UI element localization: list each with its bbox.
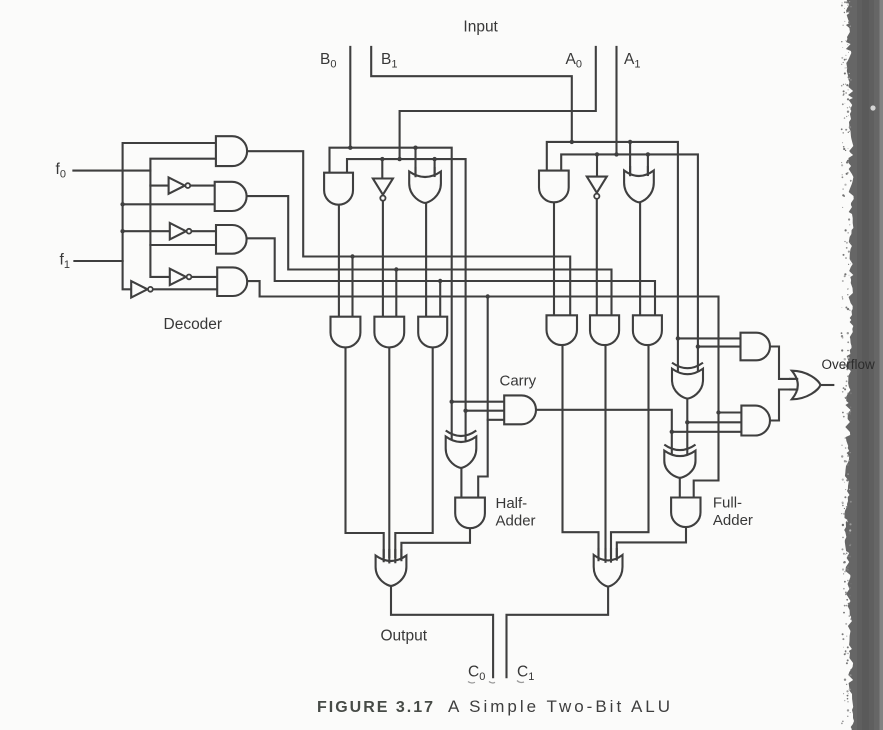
- wire OR0 input stub 3: [394, 550, 396, 562]
- XOR gate half-adder: [446, 437, 477, 468]
- node A-OR2 tap: [646, 152, 650, 156]
- node h1 branch: [350, 254, 354, 258]
- node B-OR2 tap: [432, 157, 436, 161]
- wire AND-R1 input2: [698, 346, 741, 348]
- node A1 on bus2: [614, 152, 618, 156]
- node h2 branch: [394, 267, 398, 271]
- scan gutter edge texture: [841, 1, 852, 724]
- wire B NOT out: [382, 201, 384, 317]
- OR gate overflow: [792, 371, 821, 400]
- wire carry AND input3: [488, 419, 505, 421]
- wire AND-R2 out to overflow OR: [770, 390, 794, 421]
- stray print mark 2: [489, 682, 495, 683]
- node f1-N3: [120, 229, 124, 233]
- wire XOR2 out: [679, 478, 681, 498]
- wire f1 rail: [123, 143, 216, 289]
- wire B AND out: [338, 205, 340, 317]
- AND gate half-adder: [455, 498, 485, 529]
- wire A0 input route: [400, 47, 596, 159]
- AND gate decoder D2: [215, 182, 247, 211]
- wire A OR out: [639, 202, 641, 315]
- wire A OR input1 riser: [629, 142, 631, 177]
- wire B row AND1 out: [346, 347, 384, 557]
- XOR gate bit1 sum2: [664, 451, 695, 478]
- node A-OR1 tap: [628, 140, 632, 144]
- wire XOR1 out: [686, 399, 688, 456]
- svg-text:Full-: Full-: [713, 495, 742, 512]
- wire B OR input2 riser: [434, 159, 436, 179]
- wire A bus1: [547, 142, 678, 374]
- node B-OR1 tap: [413, 146, 417, 150]
- node carry in1: [450, 400, 454, 404]
- wire AND-R2 input from decoder out4: [719, 411, 742, 413]
- wire decoder NOT2 output: [190, 185, 215, 187]
- wire half-adder AND out: [401, 528, 470, 557]
- node R1 in1: [676, 336, 680, 340]
- wire B OR input stub 1: [414, 168, 416, 176]
- XOR gate bit1 sum1: [672, 369, 703, 399]
- scan gutter edge highlight: [880, 0, 883, 730]
- AND gate B trio: [324, 173, 353, 205]
- wire OR0 input stub 2: [388, 550, 390, 562]
- inverter B trio: [373, 179, 393, 195]
- svg-text:Half-: Half-: [496, 495, 528, 512]
- wire decoder NOT3 input tap: [123, 230, 170, 232]
- node B-NOT tap: [380, 157, 384, 161]
- stray print mark 1: [468, 682, 475, 683]
- wire decoder out3 branch: [439, 281, 441, 317]
- wire A OR input2 riser: [647, 154, 649, 176]
- wire AND-R2 input2: [687, 421, 741, 423]
- wire B OR input1 riser: [414, 148, 416, 178]
- node h3 branch: [438, 279, 442, 283]
- svg-text:Adder: Adder: [713, 512, 753, 529]
- svg-text:Output: Output: [381, 628, 428, 645]
- wire decoder out2 branch: [395, 270, 397, 317]
- wire decoder out2 to row ANDs: [247, 196, 612, 315]
- wire overflow output: [820, 384, 833, 386]
- AND gate full-adder: [671, 498, 700, 528]
- wire A NOT out: [596, 199, 598, 315]
- wire B OR input stub 2: [434, 168, 436, 176]
- wire OR0 input stub 1: [383, 550, 385, 561]
- wire overflow OR input stub 1: [790, 378, 797, 380]
- wire B bus2: [347, 159, 466, 441]
- OR gate output C0: [376, 556, 407, 586]
- scan gutter darker streak: [857, 0, 874, 730]
- svg-text:Overflow: Overflow: [822, 357, 876, 372]
- inverter decoder NOT4: [170, 269, 186, 285]
- AND gate R2 carry-prop: [741, 406, 770, 436]
- OR gate output C1: [594, 555, 623, 587]
- node R2 in2: [685, 420, 689, 424]
- wire A AND out: [553, 202, 555, 315]
- inverter decoder NOT5: [131, 281, 147, 297]
- AND gate R1 carry-gen: [741, 333, 770, 361]
- wire decoder NOT4 output: [191, 276, 217, 278]
- wire B OR out: [425, 203, 427, 317]
- wire A1 input drop: [615, 47, 617, 154]
- wire B1 input route: [371, 47, 572, 142]
- wire carry AND input1: [452, 401, 505, 403]
- wire f0 lead-in: [73, 170, 150, 172]
- wire OR1 input stub 3: [610, 549, 612, 562]
- AND gate decoder D1: [216, 136, 247, 166]
- svg-text:Adder: Adder: [496, 513, 536, 530]
- wire decoder out1 to row ANDs: [247, 151, 570, 315]
- svg-text:Decoder: Decoder: [164, 316, 223, 333]
- node B1 on A-bus1: [570, 140, 574, 144]
- inverter A trio: [587, 177, 607, 193]
- scan gutter shadow band: [844, 0, 883, 730]
- AND gate B row 3: [418, 317, 447, 348]
- node f1-D2: [120, 202, 124, 206]
- AND gate A row 2: [590, 315, 619, 345]
- wire A OR input stub 2: [647, 167, 649, 175]
- wire C0 output: [391, 586, 493, 677]
- svg-text:FIGURE 3.17: FIGURE 3.17: [317, 699, 435, 716]
- svg-text:Input: Input: [463, 19, 498, 36]
- wire A row AND2 out: [604, 345, 606, 556]
- scan gutter white speck: [870, 105, 875, 110]
- OR gate B trio: [409, 172, 441, 203]
- node R1 in2: [696, 344, 700, 348]
- node h4 carry branch: [486, 294, 490, 298]
- wire decoder out3 to row ANDs: [247, 238, 655, 315]
- wire AND-R1 out to overflow OR: [770, 347, 794, 379]
- wire B row AND3 out: [395, 347, 432, 557]
- wire AND-R2 input3: [672, 431, 742, 433]
- wire overflow OR input stub 2: [790, 388, 797, 390]
- wire decoder out4 to adders: [247, 281, 718, 497]
- AND gate B row 2: [374, 317, 404, 348]
- wire carry AND input2: [466, 410, 505, 412]
- AND gate decoder D3: [216, 225, 247, 254]
- AND gate carry: [504, 395, 536, 424]
- wire carry AND out to bit1: [536, 410, 672, 456]
- AND gate B row 1: [331, 317, 361, 348]
- wire A NOT input riser: [596, 154, 598, 177]
- wire decoder AND3 input f0 tap: [150, 244, 216, 246]
- OR gate A trio: [624, 171, 654, 203]
- node R2 in1: [716, 410, 720, 414]
- inverter decoder NOT2: [169, 177, 185, 193]
- wire A bus2: [561, 154, 698, 373]
- wire C1 output: [507, 587, 609, 678]
- wire B bus1: [330, 148, 452, 441]
- node R2 in3: [670, 430, 674, 434]
- AND gate A row 3: [633, 315, 662, 345]
- wire f0 rail: [150, 159, 216, 277]
- wire OR0 input stub 4: [400, 550, 402, 560]
- AND gate decoder D4: [217, 267, 247, 296]
- wire OR1 input stub 2: [604, 549, 606, 562]
- wire decoder NOT3 output: [191, 230, 216, 232]
- wire OR1 input stub 1: [597, 549, 599, 560]
- AND gate A row 1: [547, 315, 578, 345]
- wire B row AND2 out: [388, 347, 390, 557]
- svg-text:A Simple Two-Bit ALU: A Simple Two-Bit ALU: [448, 697, 673, 716]
- wire f1 lead-in: [74, 260, 122, 262]
- wire carry enable drop: [478, 297, 488, 499]
- wire A row AND3 out: [611, 344, 649, 557]
- node A0 on bus2: [397, 157, 401, 161]
- wire decoder AND2 input f1 tap: [123, 203, 215, 205]
- wire A OR input stub 1: [629, 167, 631, 175]
- node carry in2: [463, 409, 467, 413]
- wire decoder NOT5 output: [153, 288, 218, 290]
- wire OR1 input stub 4: [616, 549, 618, 560]
- AND gate A trio: [539, 171, 569, 203]
- node B0 on bus1: [348, 146, 352, 150]
- scan gutter inner streak: [862, 0, 869, 730]
- svg-text:Carry: Carry: [500, 373, 537, 390]
- node A-NOT tap: [595, 152, 599, 156]
- wire decoder NOT2 input tap: [150, 185, 168, 187]
- wire decoder out1 branch: [351, 257, 353, 317]
- wire full-adder AND out: [617, 527, 686, 556]
- wire AND-R1 input1: [678, 337, 741, 339]
- wire B NOT input riser: [381, 159, 383, 179]
- wire A row AND1 out: [563, 345, 599, 556]
- stray print mark 3: [517, 681, 524, 683]
- wire B0 input drop: [349, 47, 351, 148]
- wire XOR0 out: [460, 468, 462, 498]
- inverter decoder NOT3: [170, 223, 186, 239]
